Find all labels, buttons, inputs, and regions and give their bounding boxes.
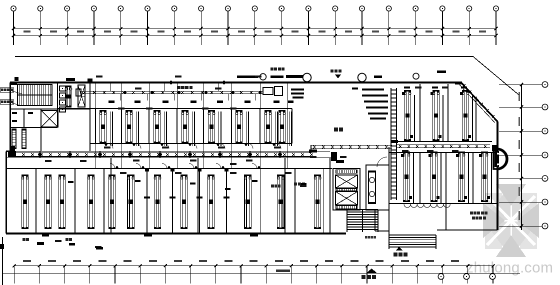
svg-text:zhulong.com: zhulong.com xyxy=(466,260,553,277)
